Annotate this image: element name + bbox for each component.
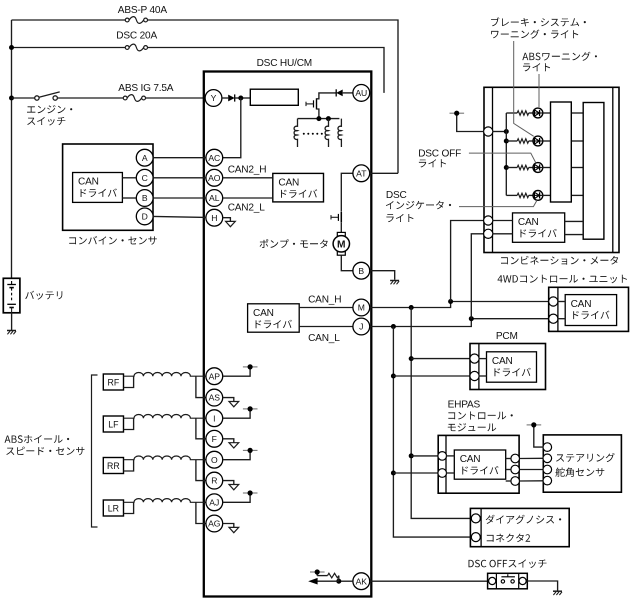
wire Q1 drain to diode D2 (317, 93, 337, 99)
terminal AJ (206, 494, 223, 511)
terminal diag 1 (471, 514, 480, 523)
ground: DSC OFF switch ground (553, 590, 562, 592)
terminal EHPAS CAN_H (438, 452, 447, 461)
resistor lamp row 3 (517, 165, 529, 169)
svg-text:AS: AS (209, 393, 221, 403)
wire meter CAN_L to driver (493, 233, 513, 235)
wire: ABS-P 40A feed from battery node to AT terminal (12, 20, 399, 173)
wire EHPAS to steering sensor 2 (520, 469, 544, 471)
wire block1-block2 row 2 (571, 140, 583, 142)
box: PCM (470, 344, 546, 390)
box: combination meter (484, 87, 619, 252)
terminal steering 4 (543, 476, 552, 485)
svg-text:ABS IG 7.5A: ABS IG 7.5A (118, 83, 173, 94)
wire B to ground (370, 271, 395, 280)
svg-text:CAN_H: CAN_H (308, 295, 341, 306)
ground: AS ground arrow (229, 402, 239, 407)
node CAN_L branch down (391, 324, 396, 329)
wire LR lower lead (124, 502, 134, 513)
terminal EHPAS right 2 (511, 465, 520, 474)
wire AO to CAN2 driver (223, 177, 273, 179)
wire AS to ground arrow (223, 398, 234, 402)
wire lamp row 2 (506, 140, 517, 142)
node CAN_H meter branch (448, 299, 453, 304)
LED lamp row 3 (533, 163, 543, 173)
box: steering angle sensor (543, 435, 621, 492)
sensor LF (ABS wheel speed sensor) (103, 416, 123, 432)
svg-text:Y: Y (211, 93, 217, 103)
terminal M (353, 299, 370, 316)
svg-text:D: D (142, 211, 148, 221)
power tap node meter (450, 112, 465, 114)
terminal J (353, 318, 370, 335)
terminal AC (206, 149, 223, 166)
svg-text:CAN2_H: CAN2_H (228, 165, 267, 176)
wire meter lamp bus (493, 131, 507, 133)
CAN driver box U4 in meter (513, 213, 565, 242)
terminal I (206, 410, 223, 427)
wire A to AC (153, 157, 206, 159)
dotted continuation between solenoid coils (303, 133, 305, 135)
wire meter driver to block2 (H) (565, 220, 584, 222)
leader DSC indicator light (459, 200, 537, 206)
label ABS warning light (522, 52, 597, 61)
svg-text:J: J (359, 322, 363, 332)
wire steering power (534, 425, 543, 447)
wire lamp bus vertical (505, 113, 507, 195)
wire AP to power tap (223, 367, 250, 376)
diode D2 to AU (336, 90, 343, 97)
block: meter driver block 1 (551, 102, 572, 202)
svg-text:CAN: CAN (278, 178, 299, 189)
wire driver to right terminals (506, 458, 511, 460)
svg-text:DSC: DSC (386, 190, 407, 201)
wire LF twisted pair to I (124, 415, 207, 419)
wire LF lower lead (124, 418, 134, 429)
svg-text:AT: AT (356, 168, 367, 178)
terminal AO (206, 169, 223, 186)
wire CAN_L trunk J to 4WD (370, 319, 549, 327)
terminal AP (206, 368, 223, 385)
resistor lamp row 2 (517, 139, 529, 143)
arrow: off-page left from AK (317, 580, 339, 582)
wire RF lower lead (124, 376, 134, 387)
CAN driver box U7 in EHPAS (454, 450, 505, 479)
svg-text:AC: AC (208, 153, 220, 163)
wire lamp row 4 (506, 194, 517, 196)
transistor Q2 (FET, pump motor drive) (340, 212, 342, 223)
switch: DSC OFF switch (488, 573, 528, 589)
CAN driver box U8 in DSC HU/CM (CAN2) (273, 173, 324, 202)
terminal PCM CAN_L (470, 371, 479, 380)
wire 4WD t2 to driver (558, 318, 565, 320)
terminal AG (206, 515, 223, 532)
wire CAN driver to C (122, 177, 136, 179)
box: combine sensor (コンバイン・センサ) (63, 144, 153, 230)
box: DSC HU/CM main unit (204, 72, 371, 597)
fuse ABS IG 7.5A (123, 96, 146, 100)
sensor RF (ABS wheel speed sensor) (103, 374, 123, 390)
label battery (25, 291, 62, 300)
ground: battery ground (7, 330, 16, 332)
wire PCM t2 to driver (479, 375, 487, 377)
wire meter CAN_L drop (471, 234, 484, 319)
wire D to H (153, 216, 206, 217)
svg-text:CAN2_L: CAN2_L (228, 202, 266, 213)
svg-text:AJ: AJ (209, 497, 219, 507)
svg-text:B: B (358, 266, 364, 276)
bracket for wheel sensors (92, 375, 98, 527)
svg-text:R: R (211, 476, 217, 486)
label ABS wheel speed sensor (5, 435, 70, 443)
wire AG to ground arrow (223, 524, 234, 528)
wire CAN_H trunk M to 4WD (370, 302, 549, 308)
wire lamp row 1 (506, 112, 517, 114)
wire: DSC 20A feed to AU terminal (12, 48, 385, 93)
terminal Y (205, 90, 222, 107)
node lamp bus (504, 129, 509, 134)
node CAN_H to EHPAS (409, 453, 414, 458)
wire lamp 1 to driver block (543, 112, 551, 114)
terminal 4WD CAN_H (549, 297, 558, 306)
svg-text:DSC 20A: DSC 20A (116, 31, 157, 42)
switch: engine switch (35, 96, 39, 100)
node after diode D1 (238, 96, 243, 101)
wire EHPAS to steering sensor 3 (520, 480, 544, 482)
ground: H terminal ground arrow (226, 221, 236, 226)
wire O to power tap (223, 450, 250, 459)
wire block1-block2 row 1 (571, 112, 583, 114)
label brake system warning light (491, 17, 586, 26)
terminal O (206, 451, 223, 468)
wire I to power tap (223, 409, 250, 418)
terminal AL (206, 190, 223, 207)
svg-text:CAN: CAN (518, 217, 539, 228)
svg-text:CAN: CAN (253, 308, 274, 319)
terminal meter CAN_L (484, 229, 493, 238)
wire switch to ground (527, 581, 557, 591)
svg-text:EHPAS: EHPAS (448, 400, 481, 411)
wire battery to ground (11, 313, 13, 331)
svg-text:H: H (211, 213, 217, 223)
wire CAN_H to EHPAS terminal (411, 455, 438, 457)
label steering angle sensor (556, 453, 615, 462)
svg-text:F: F (212, 434, 217, 444)
svg-text:CAN: CAN (78, 177, 99, 188)
resistor lamp row 4 (517, 193, 529, 197)
terminal meter power (484, 127, 493, 136)
box: 4WD control unit (549, 287, 629, 331)
terminal 4WD CAN_L (549, 314, 558, 323)
label pump motor (260, 239, 328, 248)
wire split to AS (196, 376, 206, 397)
coil L1 solenoid valve (294, 119, 297, 147)
power tap node steering (527, 424, 542, 426)
svg-text:AU: AU (355, 88, 367, 98)
ground: R ground arrow (229, 485, 239, 490)
terminal EHPAS right 3 (511, 477, 520, 486)
terminal B (combine sensor) (136, 190, 153, 207)
svg-text:RF: RF (108, 378, 120, 388)
svg-text:M: M (358, 303, 365, 313)
terminal diag 2 (471, 533, 480, 542)
wire EHPAS to steering sensor 1 (520, 457, 544, 459)
wire split to F (196, 418, 206, 439)
wire split to AG (196, 502, 206, 523)
wire R to ground arrow (223, 481, 234, 485)
wire block1-block2 row 3 (571, 167, 583, 169)
CAN driver box U3 in DSC HU/CM (248, 304, 300, 332)
label combine sensor (69, 236, 157, 245)
LED lamp row 4 (533, 191, 543, 201)
svg-text:LF: LF (108, 420, 119, 430)
wire CAN_H to PCM terminal (411, 358, 470, 360)
wire CAN driver to J (CAN_L) (299, 326, 353, 328)
ground: AG ground arrow (229, 527, 239, 532)
svg-text:AP: AP (209, 371, 221, 381)
CAN driver box U6 in PCM (487, 352, 537, 382)
node CAN_H to PCM (409, 356, 414, 361)
wire meter driver to block2 (L) (565, 234, 584, 236)
sensor RR (ABS wheel speed sensor) (103, 458, 123, 474)
svg-text:B: B (142, 193, 148, 203)
block: meter driver block 2 (583, 103, 604, 240)
wire CAN driver to M (CAN_H) (299, 307, 353, 309)
node CAN_L to PCM (391, 374, 396, 379)
wire AK to DSC OFF switch (370, 580, 489, 582)
wire PCM t1 to driver (479, 358, 487, 360)
leader ABS warning light (538, 74, 540, 107)
sensor LR (ABS wheel speed sensor) (103, 500, 123, 516)
wire CAN_L to PCM terminal (393, 375, 470, 377)
svg-text:CAN: CAN (571, 299, 592, 310)
terminal steering 1 (543, 443, 552, 452)
svg-text:AO: AO (208, 173, 221, 183)
label combination meter (501, 256, 618, 265)
wire RR lower lead (124, 460, 134, 471)
ground: B terminal ground (390, 280, 399, 282)
wire motor to B terminal (341, 255, 353, 271)
terminal meter CAN_H (484, 216, 493, 225)
svg-text:M: M (337, 240, 346, 251)
power tap node at AJ (243, 492, 258, 494)
node CAN_L meter branch (469, 316, 474, 321)
ground: F ground arrow (229, 443, 239, 448)
wire lamp 2 to driver block (543, 140, 551, 142)
LED lamp row 1 (533, 108, 543, 118)
wire H to chassis ground arrow (223, 218, 231, 222)
power tap node at I (243, 408, 258, 410)
leader brake system warning light (514, 41, 534, 136)
wire block1-block2 row 4 (571, 194, 583, 196)
terminal R (206, 472, 223, 489)
terminal EHPAS right 1 (511, 454, 520, 463)
transistor Q1 (FET, valve relay drive) (316, 98, 318, 109)
terminal steering 2 (543, 454, 552, 463)
fuse ABS-P 40A (125, 18, 148, 22)
terminal AU (353, 85, 370, 102)
wire meter CAN_H to driver (493, 220, 513, 222)
svg-text:RR: RR (107, 461, 120, 471)
wire AL to CAN2 driver (223, 197, 273, 199)
wire CAN_H vertical branch to PCM/EHPAS/diagnosis (411, 308, 470, 519)
terminal AK (353, 573, 370, 590)
wire split to R (196, 460, 206, 481)
terminal AS (206, 389, 223, 406)
wire LR twisted pair to AJ (124, 499, 207, 503)
node CAN_L to EHPAS (391, 471, 396, 476)
resistor R1 (AK pull-up) (338, 576, 340, 582)
resistor lamp row 1 (517, 111, 529, 115)
wire B to AL (CAN2_L) (153, 197, 206, 199)
wire RR twisted pair to O (124, 456, 207, 460)
svg-text:LR: LR (108, 504, 119, 514)
terminal AT (353, 165, 370, 182)
wire: ignition feed ABS IG 7.5A to Y terminal (12, 97, 35, 99)
wire CAN_L vertical branch to PCM/EHPAS/diagnosis (393, 327, 470, 538)
wire meter CAN_H drop (451, 221, 484, 302)
wire CAN driver to B (122, 197, 136, 199)
wire F to ground arrow (223, 439, 234, 443)
terminal EHPAS CAN_L (438, 469, 447, 478)
terminal F (206, 430, 223, 447)
wire C to AO (CAN2_H) (153, 177, 206, 179)
wire 4WD t1 to driver (558, 301, 565, 303)
svg-text:O: O (211, 455, 218, 465)
node AK junction (336, 579, 341, 584)
svg-text:I: I (213, 413, 215, 423)
terminal PCM CAN_H (470, 354, 479, 363)
wire AJ to power tap (223, 493, 250, 502)
svg-text:ABS-P 40A: ABS-P 40A (118, 5, 168, 16)
terminal H (206, 209, 223, 226)
wire AT to ABS-P feed (370, 172, 398, 174)
box: EHPAS control module (438, 435, 519, 493)
power tap node at O (243, 449, 258, 451)
svg-text:CAN: CAN (460, 454, 481, 465)
wire AT to pump transistor (341, 173, 353, 212)
svg-text:C: C (142, 173, 148, 183)
node CAN_H branch down (409, 305, 414, 310)
wire lamp 3 to driver block (543, 167, 551, 169)
fuse DSC 20A (125, 45, 148, 49)
coil L3 solenoid valve (338, 119, 341, 147)
battery BT (3, 278, 20, 313)
svg-text:AG: AG (208, 519, 221, 529)
wire meter power tap (457, 113, 484, 131)
wire EHPAS t1 to driver (446, 455, 454, 457)
component box (regulator) inside DSC HU/CM (250, 89, 298, 105)
terminal B (353, 262, 370, 279)
diode D1 after Y (222, 97, 228, 99)
terminal steering 3 (543, 465, 552, 474)
terminal D (combine sensor) (136, 208, 153, 225)
wire from node to AC terminal (223, 98, 241, 158)
label DSC OFF switch (469, 559, 547, 568)
svg-text:A: A (142, 153, 148, 163)
terminal A (combine sensor) (136, 149, 153, 166)
svg-text:AK: AK (356, 576, 368, 586)
motor M1 pump motor (337, 232, 345, 236)
label 4WD control unit (498, 275, 628, 283)
svg-text:DSC HU/CM: DSC HU/CM (257, 58, 312, 69)
svg-text:PCM: PCM (496, 331, 518, 342)
wire AK internal with resistor R1 (339, 580, 353, 582)
svg-text:AL: AL (209, 193, 220, 203)
LED lamp row 2 (533, 136, 543, 146)
wire: solenoid rail (298, 118, 340, 120)
wire RF twisted pair to AP (124, 373, 207, 377)
node: solenoid rail junction 2 (326, 116, 331, 121)
wire lamp 4 to driver block (543, 194, 551, 196)
wire lamp row 3 (506, 167, 517, 169)
wire Q1 source to solenoid rail (317, 109, 319, 119)
CAN driver box U5 in 4WD unit (565, 295, 616, 326)
coil L2 solenoid valve (325, 119, 328, 147)
box: diagnosis connector 2 (470, 508, 569, 546)
label diagnosis connector 2 (486, 515, 562, 524)
CAN driver box U2 in combine sensor (73, 173, 123, 203)
label engine switch (27, 105, 72, 113)
node: solenoid rail junction 1 (316, 116, 321, 121)
svg-text:CAN_L: CAN_L (308, 333, 340, 344)
svg-text:CAN: CAN (492, 356, 513, 367)
terminal C (combine sensor) (136, 169, 153, 186)
leader DSC OFF light (469, 153, 536, 163)
node: battery positive trunk (11, 20, 13, 278)
wire CAN_L to EHPAS terminal (393, 472, 438, 474)
wire Q2 to motor (340, 223, 342, 233)
svg-text:DSC OFF: DSC OFF (418, 148, 461, 159)
power tap node at AK resistor (310, 571, 325, 573)
wire EHPAS t2 to driver (446, 472, 454, 474)
power tap node at AP (243, 366, 258, 368)
